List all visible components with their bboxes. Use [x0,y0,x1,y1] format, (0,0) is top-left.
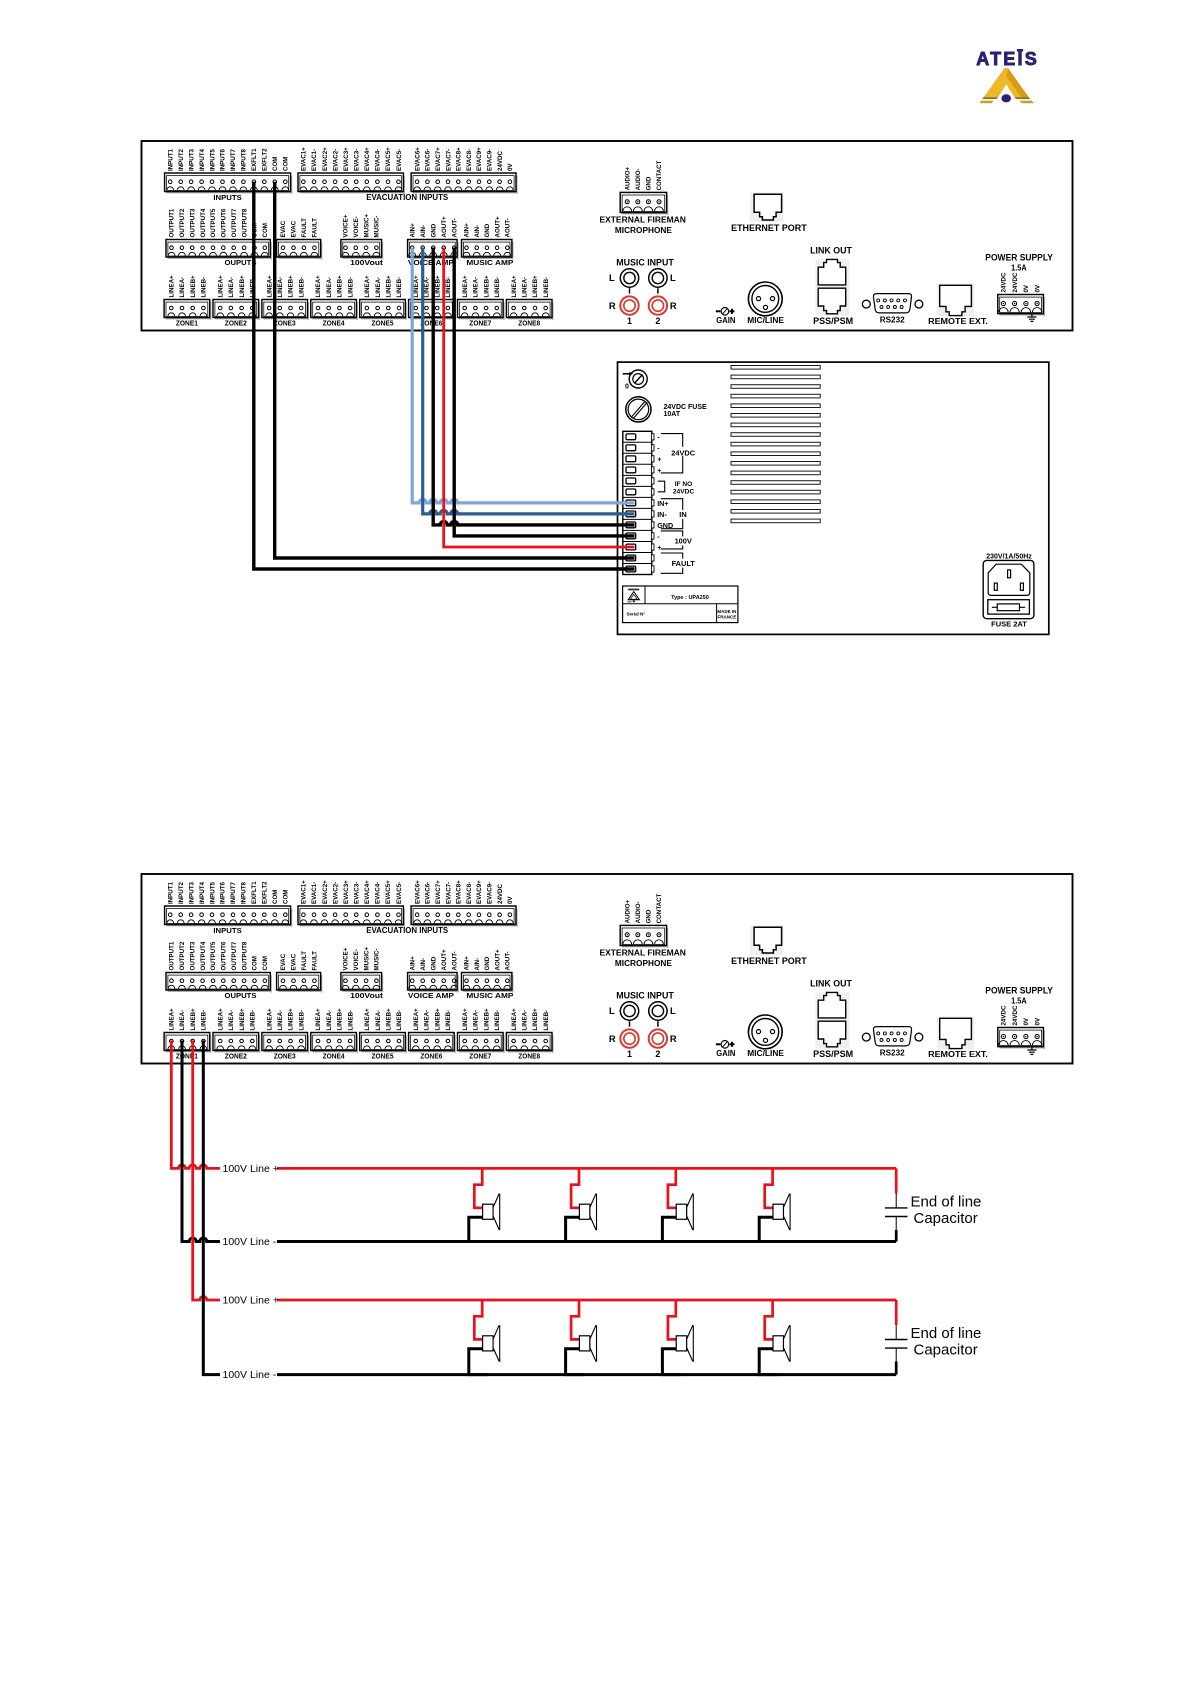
PSU type label plate [623,586,738,623]
svg-text:EVAC7+: EVAC7+ [435,147,442,171]
svg-text:LINEB-: LINEB- [543,1010,550,1031]
svg-text:AOUT+: AOUT+ [494,949,501,971]
svg-text:COM: COM [272,890,279,904]
svg-text:LINEA-: LINEA- [424,277,431,298]
svg-text:GAIN: GAIN [716,1048,735,1058]
svg-text:RS232: RS232 [880,315,905,325]
svg-text:LINEB+: LINEB+ [288,1008,295,1031]
connector MIC/LINE XLR (panel 2) [747,1015,784,1058]
svg-text:EVAC8+: EVAC8+ [456,147,463,171]
svg-text:OUPUTS: OUPUTS [225,991,257,1000]
loudspeaker LSB2 [566,1300,597,1375]
svg-text:EVAC1-: EVAC1- [311,149,318,171]
loudspeaker LSA4 [759,1168,790,1241]
svg-text:MUSIC+: MUSIC+ [363,947,370,971]
connector LINK OUT / PSS-PSM dual RJ45 (panel 1) [810,246,853,326]
svg-text:LINEB+: LINEB+ [532,275,539,298]
svg-text:MADE IN: MADE IN [717,609,736,614]
svg-text:AIN+: AIN+ [464,223,471,238]
svg-text:EVAC: EVAC [291,953,298,970]
svg-text:AIN-: AIN- [420,225,427,238]
svg-text:EVAC2+: EVAC2+ [322,880,329,904]
svg-text:EVAC9+: EVAC9+ [476,147,483,171]
svg-text:MIC/LINE: MIC/LINE [747,1048,784,1058]
svg-text:POWER SUPPLY: POWER SUPPLY [985,253,1053,263]
svg-text:Capacitor: Capacitor [914,1210,978,1227]
svg-text:LINEB-: LINEB- [396,277,403,298]
svg-text:INPUT3: INPUT3 [188,881,195,904]
svg-text:LINEA+: LINEA+ [315,275,322,298]
GAIN trimmer (panel 2) [716,1041,736,1059]
svg-text:0V: 0V [507,896,514,904]
PSU terminal strip [623,431,654,574]
ATEIS logo text [976,49,1039,69]
svg-text:IN-: IN- [657,510,667,519]
svg-text:VOICE AMP: VOICE AMP [408,991,454,1000]
svg-text:INPUTS: INPUTS [213,926,241,935]
svg-text:EVAC6+: EVAC6+ [414,880,421,904]
svg-text:EVAC5+: EVAC5+ [385,147,392,171]
svg-text:LINEB-: LINEB- [347,1010,354,1031]
svg-text:LINEA-: LINEA- [179,1010,186,1031]
svg-text:ZONE2: ZONE2 [225,319,247,328]
ATEIS logo triangle [979,68,1033,103]
svg-text:LINEA-: LINEA- [326,277,333,298]
svg-text:EVAC9-: EVAC9- [487,882,494,904]
svg-text:INPUT7: INPUT7 [230,881,237,904]
svg-text:IN: IN [679,510,686,519]
svg-text:ZONE3: ZONE3 [274,1052,296,1061]
connector MUSIC INPUT RCA jacks (panel 2) [609,991,677,1060]
svg-text:EVAC5-: EVAC5- [396,882,403,904]
svg-text:FAULT: FAULT [301,951,308,971]
svg-text:EVAC4-: EVAC4- [375,882,382,904]
svg-text:ETHERNET PORT: ETHERNET PORT [731,956,807,966]
svg-text:EVAC5+: EVAC5+ [385,880,392,904]
svg-text:LINEA+: LINEA+ [364,275,371,298]
svg-text:LINEB-: LINEB- [298,277,305,298]
svg-text:LINEA+: LINEA+ [217,1008,224,1031]
svg-text:L: L [670,272,676,283]
svg-text:EXFLT2: EXFLT2 [262,881,269,904]
svg-text:POWER SUPPLY: POWER SUPPLY [985,986,1053,996]
svg-text:EXFLT2: EXFLT2 [262,148,269,171]
svg-text:CONTACT: CONTACT [656,160,663,190]
svg-text:OUTPUT7: OUTPUT7 [231,941,238,970]
wire COM to PSU FAULT (black) [275,182,635,558]
svg-text:GND: GND [484,223,491,237]
end of line capacitor CB [885,1300,908,1375]
svg-text:EVAC7-: EVAC7- [445,149,452,171]
terminal block OUTPUTS (panel 1) [166,208,272,267]
svg-text:24VDC FUSE: 24VDC FUSE [664,404,708,411]
svg-text:AIN+: AIN+ [464,956,471,971]
ground symbol (panel 2) [1027,1047,1036,1055]
svg-text:OUTPUT5: OUTPUT5 [210,208,217,237]
wire ZONE1 LINEA- / 100V Line - (circuit 1, black) [182,1041,896,1242]
svg-text:MIC/LINE: MIC/LINE [747,315,784,325]
svg-text:LINEB+: LINEB+ [190,1008,197,1031]
svg-text:MUSIC-: MUSIC- [374,949,381,971]
label EXTERNAL FIREMAN MICROPHONE (panel 1) [599,215,686,236]
amplifier rear panel 2 [142,874,1073,1064]
terminal block ZONE3 (panel 2) [262,1008,309,1061]
svg-text:LINEB+: LINEB+ [434,1008,441,1031]
svg-text:INPUT8: INPUT8 [241,148,248,171]
svg-text:1: 1 [627,316,632,326]
svg-text:OUTPUT7: OUTPUT7 [231,208,238,237]
wire VOICE AMP AIN- to PSU IN- (dark blue) [423,248,635,514]
wire ZONE1 LINEB+ / 100V Line + (circuit 2, red) [193,1041,897,1301]
svg-text:EVAC8-: EVAC8- [466,149,473,171]
svg-text:LINEB-: LINEB- [445,277,452,298]
svg-text:EXTERNAL FIREMAN: EXTERNAL FIREMAN [599,948,686,958]
svg-text:LINEB+: LINEB+ [288,275,295,298]
svg-text:0V: 0V [1023,1017,1030,1025]
svg-text:GND: GND [484,956,491,970]
connector LINK OUT / PSS-PSM dual RJ45 (panel 2) [810,979,853,1059]
terminal block ZONE8 (panel 2) [506,1008,553,1061]
svg-text:R: R [609,300,616,311]
terminal block ZONE1 (panel 1) [164,275,211,328]
svg-text:INPUT5: INPUT5 [209,881,216,904]
connector ETHERNET PORT RJ45 (panel 1) [731,192,807,233]
terminal block EVAC/FAULT relay (panel 2) [277,951,323,993]
svg-text:24VDC: 24VDC [673,488,694,495]
svg-text:INPUT3: INPUT3 [188,148,195,171]
svg-text:OUTPUT5: OUTPUT5 [210,941,217,970]
svg-text:AOUT+: AOUT+ [441,216,448,238]
svg-text:EVAC9+: EVAC9+ [476,880,483,904]
svg-text:LINEB+: LINEB+ [190,275,197,298]
svg-text:100V Line +: 100V Line + [223,1295,279,1307]
svg-text:LINEA-: LINEA- [522,1010,529,1031]
svg-text:LINEB-: LINEB- [298,1010,305,1031]
svg-text:LINEA-: LINEA- [277,277,284,298]
svg-text:EVAC8+: EVAC8+ [456,880,463,904]
svg-text:100V Line +: 100V Line + [223,1163,279,1175]
svg-text:EVAC2-: EVAC2- [332,882,339,904]
svg-text:LINEA-: LINEA- [375,277,382,298]
svg-text:INPUT1: INPUT1 [167,881,174,904]
svg-text:COM: COM [272,157,279,171]
svg-text:OUTPUT2: OUTPUT2 [179,941,186,970]
svg-text:INPUTS: INPUTS [213,193,241,202]
loudspeaker LSA1 [469,1168,500,1241]
svg-text:LINEA+: LINEA+ [169,1008,176,1031]
svg-text:24VDC: 24VDC [497,151,504,171]
svg-text:ZONE8: ZONE8 [518,1052,540,1061]
net label 100V Line - [220,1368,277,1381]
svg-text:FRANCE: FRANCE [718,614,737,619]
svg-text:MUSIC INPUT: MUSIC INPUT [616,991,674,1001]
label POWER SUPPLY 1.5A (panel 1) [985,253,1053,273]
wire ZONE1 LINEA+ / 100V Line + (circuit 1, red) [171,1041,896,1169]
wire VOICE AMP AOUT+ to PSU 100V+ (red) [444,248,635,548]
terminal block EXTERNAL FIREMAN MICROPHONE (panel 1) [620,160,668,215]
terminal block ZONE8 (panel 1) [506,275,553,328]
terminal block INPUTS (panel 2) [165,881,293,935]
svg-text:End of line: End of line [911,1194,982,1211]
svg-text:LINEB+: LINEB+ [386,275,393,298]
svg-text:OUTPUT4: OUTPUT4 [200,941,207,970]
svg-text:LINK OUT: LINK OUT [810,246,852,256]
terminal block ZONE7 (panel 1) [458,275,505,328]
svg-text:LINEA-: LINEA- [228,277,235,298]
svg-text:EVAC6+: EVAC6+ [414,147,421,171]
svg-text:LINEB-: LINEB- [494,277,501,298]
svg-text:EVAC1+: EVAC1+ [301,880,308,904]
svg-text:EVAC2+: EVAC2+ [322,147,329,171]
svg-text:100V Line -: 100V Line - [223,1369,277,1381]
svg-text:OUTPUT8: OUTPUT8 [241,941,248,970]
svg-text:EVAC: EVAC [280,953,287,970]
wire EXFLT1 to PSU FAULT (black) [254,182,635,569]
svg-text:EVAC1-: EVAC1- [311,882,318,904]
svg-text:EVAC4+: EVAC4+ [364,147,371,171]
svg-text:LINEA-: LINEA- [179,277,186,298]
terminal block POWER SUPPLY 24VDC (panel 1) [998,272,1045,316]
svg-text:100V Line -: 100V Line - [223,1236,277,1248]
svg-text:GND: GND [430,956,437,970]
svg-text:Serial N°: Serial N° [627,612,646,617]
svg-text:LINK OUT: LINK OUT [810,979,852,989]
terminal block ZONE6 (panel 2) [409,1008,456,1061]
svg-text:0V: 0V [1023,284,1030,292]
svg-text:2: 2 [655,316,660,326]
svg-text:LINEB+: LINEB+ [483,1008,490,1031]
svg-text:OUTPUT3: OUTPUT3 [190,208,197,237]
svg-text:LINEB-: LINEB- [445,1010,452,1031]
svg-text:EXFLT1: EXFLT1 [251,148,258,171]
PSU adjust trimmer [623,370,647,390]
svg-text:ZONE3: ZONE3 [274,319,296,328]
svg-text:ZONE8: ZONE8 [518,319,540,328]
svg-text:R: R [609,1033,616,1044]
svg-text:+: + [657,466,661,475]
svg-text:ZONE6: ZONE6 [420,1052,442,1061]
svg-text:LINEB+: LINEB+ [239,275,246,298]
svg-text:LINEB-: LINEB- [201,277,208,298]
svg-text:EVAC4-: EVAC4- [375,149,382,171]
svg-text:OUTPUT2: OUTPUT2 [179,208,186,237]
connector REMOTE EXT. RJ45 (panel 1) [928,284,988,326]
svg-text:LINEB-: LINEB- [201,1010,208,1031]
svg-text:INPUT6: INPUT6 [220,881,227,904]
loudspeaker LSB1 [469,1300,500,1375]
svg-text:LINEA-: LINEA- [473,1010,480,1031]
svg-text:LINEA-: LINEA- [473,277,480,298]
svg-text:100Vout: 100Vout [350,991,383,1000]
svg-text:100V: 100V [675,537,692,546]
svg-text:ZONE2: ZONE2 [225,1052,247,1061]
svg-text:EVAC4+: EVAC4+ [364,880,371,904]
svg-text:24VDC: 24VDC [1001,272,1008,292]
PSU 24VDC fuse holder [626,397,707,422]
svg-text:AOUT-: AOUT- [505,218,512,237]
svg-text:COM: COM [283,890,290,904]
svg-text:ZONE7: ZONE7 [469,319,491,328]
svg-text:AIN-: AIN- [474,958,481,971]
svg-text:ZONE4: ZONE4 [323,1052,346,1061]
svg-text:LINEA-: LINEA- [522,277,529,298]
svg-text:REMOTE EXT.: REMOTE EXT. [928,316,988,326]
terminal block EVAC/FAULT relay (panel 1) [277,218,323,260]
PSU box outline [618,362,1049,634]
net label 100V Line + [220,1294,279,1307]
svg-text:LINEA+: LINEA+ [315,1008,322,1031]
svg-text:IN+: IN+ [657,499,668,508]
svg-text:MUSIC INPUT: MUSIC INPUT [616,258,674,268]
svg-text:0: 0 [625,383,629,390]
svg-text:EVAC: EVAC [291,220,298,237]
svg-text:OUTPUT3: OUTPUT3 [190,941,197,970]
connector ETHERNET PORT RJ45 (panel 2) [731,925,807,966]
terminal block ZONE4 (panel 1) [311,275,358,328]
svg-text:EXFLT1: EXFLT1 [251,881,258,904]
label EXTERNAL FIREMAN MICROPHONE (panel 2) [599,948,686,969]
svg-text:LINEB+: LINEB+ [239,1008,246,1031]
svg-text:LINEA-: LINEA- [375,1010,382,1031]
svg-text:1.5A: 1.5A [1011,263,1027,273]
label EVACUATION INPUTS (panel 2) [366,926,449,935]
svg-text:230V/1A/50Hz: 230V/1A/50Hz [986,554,1032,561]
svg-text:INPUT6: INPUT6 [220,148,227,171]
terminal block POWER SUPPLY 24VDC (panel 2) [998,1005,1045,1049]
svg-text:INPUT7: INPUT7 [230,148,237,171]
label EVACUATION INPUTS (panel 1) [366,193,449,202]
svg-text:EVAC7+: EVAC7+ [435,880,442,904]
svg-text:GND: GND [430,223,437,237]
svg-text:EVAC6-: EVAC6- [425,882,432,904]
svg-text:LINEB-: LINEB- [396,1010,403,1031]
terminal block OUTPUTS (panel 2) [166,941,272,1000]
svg-text:VOICE-: VOICE- [353,216,360,237]
svg-text:LINEA+: LINEA+ [511,275,518,298]
PSU terminal labels and group brackets [657,433,697,574]
svg-text:VOICE+: VOICE+ [343,947,350,970]
svg-text:EVAC6-: EVAC6- [425,149,432,171]
svg-text:AIN-: AIN- [420,958,427,971]
terminal block 100Vout (panel 1) [341,214,384,267]
connector MIC/LINE XLR (panel 1) [747,282,784,325]
label POWER SUPPLY 1.5A (panel 2) [985,986,1053,1006]
svg-text:AUDIO-: AUDIO- [635,901,642,923]
svg-text:CONTACT: CONTACT [656,893,663,923]
terminal block EVACUATION INPUTS 6-9 (panel 2) [411,880,518,927]
svg-text:EVAC3+: EVAC3+ [343,147,350,171]
svg-text:0V: 0V [1034,284,1041,292]
terminal block INPUTS (panel 1) [165,148,293,202]
svg-text:OUTPUT1: OUTPUT1 [169,208,176,237]
svg-text:24VDC: 24VDC [1012,272,1019,292]
terminal block ZONE2 (panel 2) [213,1008,260,1061]
svg-text:AOUT+: AOUT+ [441,949,448,971]
svg-text:LINEA+: LINEA+ [266,1008,273,1031]
svg-text:LINEA+: LINEA+ [413,275,420,298]
svg-text:VOICE-: VOICE- [353,949,360,970]
svg-text:LINEA+: LINEA+ [413,1008,420,1031]
svg-text:LINEA-: LINEA- [326,1010,333,1031]
svg-text:ZONE1: ZONE1 [176,319,199,328]
svg-text:LINEA+: LINEA+ [462,275,469,298]
terminal block EVACUATION INPUTS 6-9 (panel 1) [411,147,518,194]
svg-text:AOUT-: AOUT- [451,218,458,237]
svg-text:MICROPHONE: MICROPHONE [615,958,672,968]
svg-text:EVAC7-: EVAC7- [445,882,452,904]
svg-text:LINEB-: LINEB- [347,277,354,298]
svg-text:FAULT: FAULT [312,951,319,971]
svg-text:L: L [609,272,615,283]
svg-text:VOICE+: VOICE+ [343,214,350,237]
svg-text:LINEA+: LINEA+ [266,275,273,298]
loudspeaker LSB3 [662,1300,693,1375]
svg-text:INPUT2: INPUT2 [178,881,185,904]
svg-text:AIN-: AIN- [474,225,481,238]
svg-text:REMOTE EXT.: REMOTE EXT. [928,1049,988,1059]
svg-text:+: + [657,455,661,464]
connector MUSIC INPUT RCA jacks (panel 1) [609,258,677,327]
end of line capacitor CA [885,1168,908,1241]
svg-text:1: 1 [627,1049,632,1059]
svg-text:COM: COM [252,956,259,970]
svg-text:RS232: RS232 [880,1048,905,1058]
svg-text:AOUT-: AOUT- [451,951,458,970]
svg-text:INPUT4: INPUT4 [199,148,206,171]
terminal block ZONE1 (panel 2) [164,1008,211,1061]
svg-text:MUSIC AMP: MUSIC AMP [466,991,513,1000]
svg-text:OUTPUT4: OUTPUT4 [200,208,207,237]
terminal block MUSIC AMP (panel 2) [462,949,514,1000]
terminal block MUSIC AMP (panel 1) [462,216,514,267]
svg-text:End of line: End of line [911,1325,982,1342]
svg-text:LINEB+: LINEB+ [337,275,344,298]
svg-text:LINEB-: LINEB- [543,277,550,298]
svg-text:OUTPUT6: OUTPUT6 [221,208,228,237]
ground symbol (panel 1) [1027,314,1036,322]
svg-text:LINEA+: LINEA+ [364,1008,371,1031]
svg-text:OUTPUT1: OUTPUT1 [169,941,176,970]
svg-text:L: L [609,1005,615,1016]
svg-text:PSS/PSM: PSS/PSM [813,1049,853,1059]
terminal block ZONE5 (panel 2) [360,1008,407,1061]
svg-text:24VDC: 24VDC [1001,1005,1008,1025]
loudspeaker LSB4 [759,1300,790,1375]
svg-text:R: R [670,300,677,311]
svg-text:EVAC8-: EVAC8- [466,882,473,904]
svg-text:LINEA-: LINEA- [424,1010,431,1031]
svg-text:LINEB-: LINEB- [494,1010,501,1031]
svg-text:EVACUATION INPUTS: EVACUATION INPUTS [366,193,449,202]
svg-text:GAIN: GAIN [716,315,735,325]
terminal block EXTERNAL FIREMAN MICROPHONE (panel 2) [620,893,668,948]
svg-text:ZONE5: ZONE5 [372,1052,395,1061]
terminal block ZONE2 (panel 1) [213,275,260,328]
svg-text:EVAC1+: EVAC1+ [301,147,308,171]
loudspeaker LSA3 [662,1168,693,1241]
svg-text:PSS/PSM: PSS/PSM [813,316,853,326]
terminal block ZONE4 (panel 2) [311,1008,358,1061]
net label 100V Line + [220,1162,279,1175]
GAIN trimmer (panel 1) [716,308,736,326]
connector RS232 DB9 (panel 2) [862,1027,922,1058]
terminal block ZONE7 (panel 2) [458,1008,505,1061]
svg-text:LINEA+: LINEA+ [169,275,176,298]
svg-text:EVAC: EVAC [280,220,287,237]
terminal block VOICE AMP (panel 2) [408,949,459,1000]
svg-text:INPUT8: INPUT8 [241,881,248,904]
svg-text:LINEB+: LINEB+ [337,1008,344,1031]
